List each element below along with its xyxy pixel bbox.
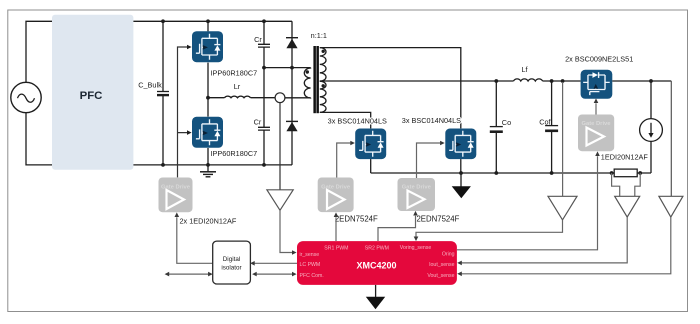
- node bottom bus dots: [161, 163, 165, 167]
- ground primary: [200, 165, 216, 177]
- capacitor Cr upper leg: [254, 21, 270, 67]
- svg-text:3x BSC014N04LS: 3x BSC014N04LS: [328, 116, 387, 125]
- wire AC top loop: [26, 21, 52, 82]
- capacitor C_Bulk: [138, 21, 169, 165]
- voring sense line: [562, 82, 564, 196]
- node Cr mid: [262, 66, 266, 70]
- svg-text:PFC Com.: PFC Com.: [300, 273, 324, 279]
- svg-text:XMC4200: XMC4200: [356, 261, 396, 271]
- gate arrow lower: [187, 130, 192, 135]
- wire Voring to XMC: [416, 220, 563, 237]
- AC source V1: [11, 82, 41, 112]
- node rail dots: [494, 79, 498, 83]
- wire half-bridge leg: [207, 21, 209, 165]
- svg-text:Lr: Lr: [234, 82, 241, 91]
- wire secondary top lead to SR2: [320, 48, 461, 129]
- wire XMC Oring to GD3: [457, 156, 598, 250]
- node shunt right: [638, 171, 642, 175]
- transformer T1: [304, 31, 327, 113]
- wire midpoint to Lr: [208, 97, 225, 99]
- svg-text:LC PWM: LC PWM: [300, 262, 321, 268]
- wire Vout to XMC: [462, 217, 671, 274]
- svg-text:1EDI20N12AF: 1EDI20N12AF: [601, 152, 649, 161]
- v_sense line from sensor: [279, 103, 281, 190]
- wire isolator left bidirectional: [167, 273, 212, 275]
- svg-text:C_Bulk: C_Bulk: [138, 80, 162, 89]
- svg-text:Oring: Oring: [442, 252, 455, 258]
- wire XMC SR2 PWM to GD2: [378, 216, 416, 241]
- arrow into GD2: [413, 211, 418, 216]
- node half-bridge midpoint: [206, 96, 210, 100]
- svg-text:isolator: isolator: [221, 265, 241, 272]
- svg-text:IPP60R180C7: IPP60R180C7: [211, 149, 258, 158]
- wire secondary ground bus: [371, 172, 651, 174]
- transistor Q2 IPP60R180C7: [192, 117, 223, 148]
- gate drive GD0 primary: [159, 178, 193, 213]
- shunt resistor: [614, 169, 637, 177]
- XMC4200 MCU: [297, 241, 457, 285]
- inductor Lf: [514, 65, 543, 81]
- svg-text:PFC: PFC: [80, 90, 103, 102]
- vout sense line: [670, 81, 672, 196]
- current sensor circle: [275, 93, 285, 103]
- svg-text:ir_sense: ir_sense: [300, 252, 320, 258]
- amplifier Iout: [615, 196, 640, 217]
- svg-text:Cof: Cof: [539, 117, 551, 126]
- wire GD3 to oring gate: [595, 103, 597, 114]
- diode D1 upper: [286, 38, 298, 49]
- svg-text:2EDN7524F: 2EDN7524F: [335, 214, 378, 223]
- inductor Lr: [225, 82, 251, 98]
- transistor Q1 IPP60R180C7: [192, 31, 223, 62]
- amplifier Voring: [548, 196, 577, 220]
- wire GD1 to SR1 gate: [337, 143, 351, 178]
- svg-text:2x BSC009NE2LS51: 2x BSC009NE2LS51: [565, 55, 633, 64]
- wire bottom bus: [133, 164, 292, 166]
- secondary top winding: [320, 48, 326, 82]
- gate arrow upper: [187, 45, 192, 50]
- transistor SR2 3x BSC014N04LS: [445, 129, 476, 160]
- wire Iout to XMC: [462, 217, 628, 263]
- capacitor Cr lower leg: [254, 68, 270, 165]
- node diode mid: [290, 66, 294, 70]
- svg-text:IPP60R180C7: IPP60R180C7: [211, 69, 258, 78]
- wire GD2 to SR2 gate: [417, 143, 441, 178]
- wire LC PWM: [252, 262, 297, 264]
- wire XMC SR1 PWM to GD1: [335, 217, 337, 241]
- arrow into GD0: [175, 212, 180, 217]
- wire XMC bottom: [375, 285, 377, 298]
- svg-text:SR2 PWM: SR2 PWM: [365, 246, 389, 252]
- arrow into SR1 gate: [350, 141, 355, 146]
- svg-text:Iout_sense: Iout_sense: [429, 262, 454, 268]
- wire gate net primary: [178, 47, 188, 177]
- arrow into GD1: [334, 212, 339, 217]
- svg-text:Cr: Cr: [254, 35, 262, 44]
- svg-text:Cr: Cr: [254, 117, 262, 126]
- primary winding: [304, 68, 310, 98]
- wire sensor to primary: [285, 97, 311, 99]
- wire AC bottom loop: [26, 113, 52, 165]
- svg-text:3x BSC014N04LS: 3x BSC014N04LS: [402, 116, 461, 125]
- node shunt left: [610, 171, 614, 175]
- wire Lf to oring: [543, 80, 581, 82]
- svg-text:2EDN7524F: 2EDN7524F: [416, 214, 459, 223]
- ground arrow XMC: [366, 297, 385, 310]
- digital isolator: [213, 241, 251, 284]
- secondary bottom winding: [320, 81, 326, 112]
- wire PFC Com: [254, 273, 292, 275]
- gate drive GD1: [318, 178, 354, 213]
- svg-text:Voring_sense: Voring_sense: [400, 245, 432, 251]
- diode D2 lower: [286, 121, 298, 131]
- node top bus dots: [161, 19, 165, 23]
- wire top bus: [133, 20, 292, 22]
- transistor ORing 2x BSC009NE2LS51: [581, 70, 613, 99]
- svg-text:Lf: Lf: [521, 65, 528, 74]
- current source load: [640, 119, 663, 142]
- amplifier v_sense: [267, 190, 293, 211]
- svg-text:Gate Drive: Gate Drive: [321, 184, 351, 190]
- wire center tap rail: [320, 80, 514, 82]
- wire isolator to GD0: [177, 217, 213, 263]
- capacitor Cof: [539, 81, 558, 173]
- wire Lr to sensor: [251, 97, 276, 99]
- ground triangle secondary: [460, 173, 462, 187]
- transistor SR1 3x BSC014N04LS: [355, 129, 386, 160]
- wire load leg: [650, 81, 652, 173]
- gate drive GD2: [398, 178, 436, 211]
- node bus2 dots: [459, 171, 463, 175]
- svg-text:Gate Drive: Gate Drive: [402, 185, 432, 191]
- wire SR2 source: [460, 159, 462, 173]
- wire clamp diode leg: [291, 21, 293, 165]
- gate drive GD3 oring: [578, 115, 614, 152]
- amplifier Vout: [659, 196, 683, 217]
- wire v_sense to XMC: [280, 210, 292, 252]
- svg-text:Vout_sense: Vout_sense: [427, 273, 454, 279]
- svg-text:SR1 PWM: SR1 PWM: [324, 246, 348, 252]
- primary polarity dot: [306, 70, 309, 73]
- svg-text:n:1:1: n:1:1: [311, 31, 327, 40]
- secondary polarity dot bottom: [322, 84, 325, 87]
- wire oring out rail: [612, 80, 671, 82]
- wire secondary bottom lead to SR1: [320, 112, 371, 128]
- arrow v_sense into XMC: [292, 250, 297, 255]
- wire SR1 source: [370, 159, 372, 173]
- arrow into SR2 gate: [440, 141, 445, 146]
- svg-text:2x 1EDI20N12AF: 2x 1EDI20N12AF: [180, 216, 237, 225]
- core: [313, 46, 316, 113]
- wire mid junction to primary top: [264, 67, 311, 69]
- secondary polarity dot top: [322, 50, 325, 53]
- iout sense wires: [612, 173, 641, 196]
- svg-text:Co: Co: [502, 118, 511, 127]
- PFC block: [52, 15, 133, 170]
- capacitor Co: [490, 81, 511, 173]
- svg-text:Digital: Digital: [223, 256, 241, 263]
